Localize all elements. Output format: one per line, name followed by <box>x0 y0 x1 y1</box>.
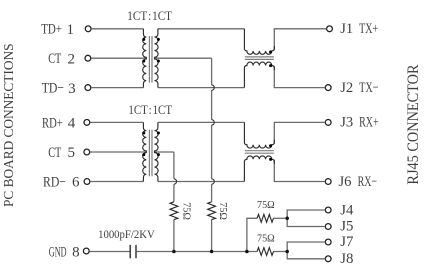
choke L2 polarity dot top <box>269 144 272 147</box>
J6 terminal circle <box>325 179 331 185</box>
transformer T1 polarity dot lower right <box>157 60 160 63</box>
resistor R4 (horizontal 75 ohm) <box>257 248 273 256</box>
svg-text:75Ω: 75Ω <box>257 233 275 245</box>
wire vertical node A from row2 down (with hops) <box>211 58 213 202</box>
wire row6 T2 to choke L2 <box>158 181 245 183</box>
svg-text:1000pF/2KV: 1000pF/2KV <box>98 229 155 241</box>
transformer T2 <box>142 122 160 181</box>
svg-text:RJ45 CONNECTOR: RJ45 CONNECTOR <box>405 64 422 184</box>
wire row2 T1 CT to node <box>155 57 212 59</box>
svg-text:3: 3 <box>68 81 76 97</box>
transformer T1 secondary winding <box>155 29 159 88</box>
wire GND row capacitor to R4 <box>137 251 257 253</box>
J3 terminal circle <box>325 120 331 126</box>
resistor R1 (vertical 75 ohm) <box>170 202 178 220</box>
pin 3 terminal circle <box>85 85 91 91</box>
transformer T2 primary winding <box>143 122 147 181</box>
svg-text:TX+: TX+ <box>359 21 378 37</box>
choke L1 bottom winding <box>244 62 274 88</box>
wire row1 T1 to choke L1 <box>158 28 245 30</box>
svg-text:8: 8 <box>72 245 80 261</box>
pin 4 terminal circle <box>84 120 90 126</box>
transformer T1 polarity dot upper right <box>157 38 160 41</box>
svg-text:J1: J1 <box>340 21 353 37</box>
transformer T1 <box>142 29 160 88</box>
pin 1 terminal circle <box>85 26 91 32</box>
common-mode choke L1 <box>244 29 274 88</box>
transformer T2 secondary winding <box>155 122 159 181</box>
svg-text:75Ω: 75Ω <box>181 202 193 220</box>
wire hop over row4 at node A <box>212 120 215 125</box>
svg-text:6: 6 <box>72 175 80 191</box>
choke L1 top winding <box>244 29 274 55</box>
svg-text:J2: J2 <box>340 80 353 96</box>
svg-text:J6: J6 <box>339 174 352 190</box>
J2 terminal circle <box>325 85 331 91</box>
choke L2 core <box>245 151 274 154</box>
svg-text:1CT : 1CT: 1CT : 1CT <box>128 102 172 117</box>
wire choke L1 to J2 <box>274 66 325 87</box>
wire R3 left lead to GND <box>247 218 257 251</box>
wire row5 pin5 to T2 CT <box>90 151 146 153</box>
pin 5 terminal circle <box>84 149 90 155</box>
svg-text:TD−: TD− <box>42 81 64 97</box>
svg-text:1: 1 <box>66 22 74 38</box>
transformer T1 polarity dot upper left <box>142 38 145 41</box>
common-mode choke L2 <box>244 122 274 181</box>
resistor R2 (vertical 75 ohm) <box>208 202 216 220</box>
wire junction to J5 <box>287 218 325 226</box>
wire row3 pin3 to T1 <box>91 87 143 89</box>
svg-text:J3: J3 <box>340 115 353 131</box>
svg-text:75Ω: 75Ω <box>217 202 229 220</box>
J7 terminal circle <box>325 239 331 245</box>
wire row6 pin6 to T2 <box>90 181 143 183</box>
choke L1 polarity dot bottom <box>269 64 272 67</box>
wire junction to J7 <box>287 242 325 252</box>
transformer T1 primary winding <box>143 29 147 88</box>
svg-text:PC BOARD CONNECTIONS: PC BOARD CONNECTIONS <box>1 44 16 208</box>
svg-text:RX+: RX+ <box>359 115 379 131</box>
wire choke L1 to J1 <box>274 29 326 50</box>
svg-text:TX−: TX− <box>359 80 379 96</box>
wire row2 pin2 to T1 CT <box>91 57 146 59</box>
J1 terminal circle <box>327 26 333 32</box>
wire row4 pin4 to T2 <box>90 121 143 123</box>
wire row4 T2 to choke L2 <box>158 121 245 123</box>
J5 terminal circle <box>325 224 331 230</box>
J8 terminal circle <box>325 256 331 262</box>
wire choke L2 to J3 <box>274 122 325 143</box>
wire row3 T1 to choke L1 <box>158 87 245 89</box>
junction R4 to J7 J8 <box>285 250 289 254</box>
capacitor C1 plates <box>130 245 136 258</box>
wire junction to J8 <box>287 252 325 259</box>
svg-text:J4: J4 <box>340 202 354 218</box>
junction node A at GND <box>210 250 214 254</box>
wire junction to J4 <box>287 210 325 218</box>
transformer T2 polarity dot lower left <box>142 153 145 156</box>
wire row5 T2 CT to node <box>155 151 174 153</box>
transformer T2 polarity dot lower right <box>157 153 160 156</box>
pin 8 terminal circle <box>83 248 89 254</box>
junction R3 lead at GND <box>245 250 249 254</box>
choke L2 bottom winding <box>244 156 274 182</box>
wire vertical node A below resistor R2 to GND <box>211 220 213 252</box>
transformer T2 polarity dot upper right <box>157 132 160 135</box>
svg-text:RX−: RX− <box>358 174 378 190</box>
svg-text:GND: GND <box>49 244 67 260</box>
J4 terminal circle <box>325 207 331 213</box>
svg-text:CT: CT <box>48 145 61 161</box>
wire R3 to junction <box>274 217 288 219</box>
wire row1 pin1 to T1 <box>91 28 143 30</box>
svg-text:J5: J5 <box>340 219 353 235</box>
svg-text:75Ω: 75Ω <box>257 199 275 211</box>
resistor R3 (horizontal 75 ohm) <box>257 214 273 222</box>
svg-text:2: 2 <box>67 51 75 67</box>
svg-text:4: 4 <box>68 116 76 132</box>
wire GND row pin8 to capacitor <box>90 251 130 253</box>
junction node B at GND <box>172 250 176 254</box>
svg-text:RD−: RD− <box>43 174 66 190</box>
svg-text:CT: CT <box>48 51 61 67</box>
transformer T1 core <box>149 36 152 83</box>
svg-text:RD+: RD+ <box>42 115 63 131</box>
wire vertical node B from row5 down (with hop) <box>173 152 175 202</box>
pin 2 terminal circle <box>85 55 91 61</box>
choke L1 core <box>245 57 274 60</box>
svg-text:TD+: TD+ <box>41 22 62 38</box>
wire hop over row6 at node A <box>212 179 215 184</box>
wire hop over row3 at node A <box>212 85 215 90</box>
pin 6 terminal circle <box>84 179 90 185</box>
choke L2 top winding <box>244 122 274 148</box>
wire choke L2 to J6 <box>274 160 325 182</box>
svg-text:1CT : 1CT: 1CT : 1CT <box>127 8 172 23</box>
transformer T2 polarity dot upper left <box>142 132 145 135</box>
choke L2 polarity dot bottom <box>269 158 272 161</box>
transformer T1 polarity dot lower left <box>142 60 145 63</box>
wire hop over row6 at node B <box>174 179 177 184</box>
svg-text:5: 5 <box>68 145 76 161</box>
transformer T2 core <box>149 130 152 177</box>
svg-text:J7: J7 <box>340 234 354 250</box>
wire vertical node B below resistor R1 to GND <box>173 220 175 252</box>
junction R3 to J4 J5 <box>285 217 289 221</box>
svg-text:J8: J8 <box>340 251 353 267</box>
choke L1 polarity dot top <box>269 51 272 54</box>
wire R4 to junction <box>274 251 288 253</box>
